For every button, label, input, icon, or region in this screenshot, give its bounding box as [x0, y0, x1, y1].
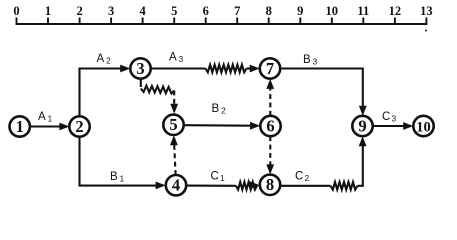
- svg-text:C: C: [382, 111, 390, 123]
- node 1: [10, 116, 30, 136]
- svg-text:8: 8: [266, 4, 272, 18]
- svg-text:6: 6: [266, 116, 274, 135]
- node 9: [352, 116, 372, 136]
- svg-text:12: 12: [389, 4, 402, 18]
- node 4: [166, 175, 186, 195]
- svg-text:2: 2: [106, 56, 111, 65]
- label B2: [212, 103, 227, 115]
- svg-text:5: 5: [171, 4, 177, 18]
- label C2: [295, 171, 310, 183]
- node 2: [69, 116, 89, 136]
- activity A3 arrow with slack zigzag (3 to 7): [151, 65, 260, 73]
- svg-text:9: 9: [297, 4, 303, 18]
- node 6: [260, 116, 280, 136]
- activity A2 arrow (2 to 3): [80, 65, 131, 117]
- node 5: [163, 115, 183, 135]
- svg-text:11: 11: [357, 4, 369, 18]
- activity C2 arrow with slack zigzag (8 to 9): [280, 136, 366, 189]
- svg-text:10: 10: [326, 4, 339, 18]
- node 3: [130, 58, 150, 78]
- svg-text:2: 2: [221, 106, 226, 115]
- svg-text:1: 1: [48, 114, 53, 123]
- activity C1 arrow with slack zigzag (4 to 8): [186, 181, 260, 189]
- svg-text:A: A: [38, 111, 46, 123]
- activity B3 arrow (7 to 9): [280, 69, 367, 116]
- svg-text:1: 1: [16, 117, 24, 136]
- svg-text:2: 2: [305, 174, 310, 183]
- label A2: [97, 53, 112, 65]
- svg-text:B: B: [303, 54, 311, 66]
- svg-text:2: 2: [75, 117, 83, 136]
- label C1: [211, 171, 226, 183]
- label A3: [169, 52, 184, 64]
- activity C3 arrow (9 to 10): [373, 122, 414, 130]
- svg-text:1: 1: [120, 174, 125, 183]
- svg-text:3: 3: [313, 57, 318, 66]
- label A1: [38, 111, 53, 123]
- svg-text:A: A: [169, 52, 177, 64]
- svg-text:4: 4: [139, 4, 146, 18]
- svg-text:C: C: [295, 171, 303, 183]
- node 8: [260, 175, 280, 195]
- svg-text:8: 8: [266, 175, 274, 194]
- activity A1 arrow (1 to 2): [30, 123, 70, 131]
- svg-text:3: 3: [392, 114, 397, 123]
- svg-text:7: 7: [266, 59, 274, 78]
- svg-text:9: 9: [358, 116, 366, 135]
- svg-text:5: 5: [169, 115, 177, 134]
- node 7: [260, 58, 280, 78]
- label B3: [303, 54, 318, 66]
- svg-text:10: 10: [416, 119, 431, 135]
- svg-text:B: B: [212, 103, 220, 115]
- svg-text:1: 1: [45, 4, 51, 18]
- activity B1 arrow (2 to 4): [80, 137, 166, 190]
- node 10: [413, 116, 433, 136]
- svg-text:1: 1: [220, 174, 225, 183]
- svg-text:13: 13: [420, 4, 433, 18]
- svg-text:7: 7: [234, 4, 240, 18]
- ink speck (scan artifact): [425, 29, 427, 31]
- dummy arrow 6 to 8: [266, 136, 274, 174]
- dummy arrow 6 to 7: [266, 79, 274, 116]
- label C3: [382, 111, 397, 123]
- svg-text:B: B: [110, 171, 118, 183]
- svg-text:4: 4: [172, 176, 180, 195]
- dummy arrow 4 to 5: [170, 135, 178, 175]
- svg-text:A: A: [97, 53, 105, 65]
- svg-text:3: 3: [136, 59, 144, 78]
- time scale ticks: [17, 18, 427, 26]
- label B1: [110, 171, 125, 183]
- svg-text:3: 3: [108, 4, 114, 18]
- time scale numbers 0-13: [13, 4, 432, 18]
- dummy arrow 3 to 5 with slack zigzag: [141, 79, 178, 114]
- svg-text:C: C: [211, 171, 219, 183]
- svg-text:6: 6: [203, 4, 209, 18]
- svg-text:3: 3: [179, 55, 184, 64]
- time scale baseline: [17, 23, 427, 25]
- activity B2 arrow (5 to 6): [184, 122, 260, 130]
- svg-text:0: 0: [13, 4, 19, 18]
- svg-text:2: 2: [76, 4, 82, 18]
